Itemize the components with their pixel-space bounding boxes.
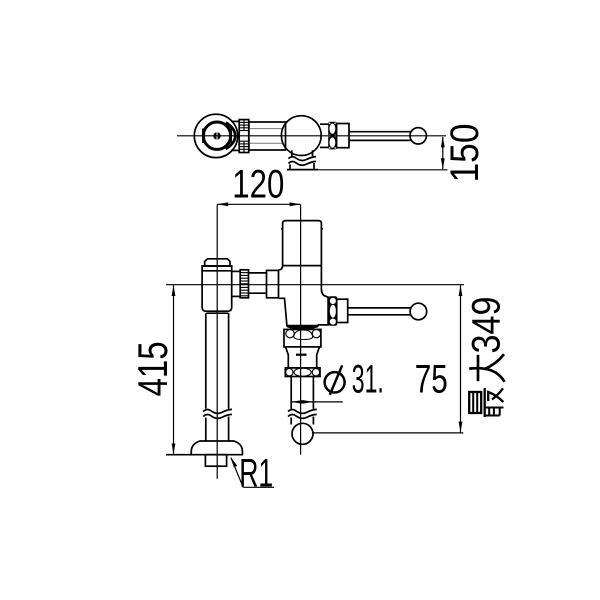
flush pipe centerline / right extension of dim 120 (front view): [300, 205, 302, 455]
connecting pipe to valve body: [249, 273, 267, 293]
svg-text:31.: 31.: [352, 358, 384, 402]
spud end circle: [292, 423, 313, 444]
dimension line 120: [217, 202, 300, 206]
floor flange bell: [166, 441, 243, 455]
dimension 150 (plan view, right): [318, 136, 448, 169]
knurled ring 1 (plan): [239, 120, 249, 153]
supply level centerline (horizontal, front view): [166, 284, 464, 286]
lever ball end (plan): [410, 128, 426, 144]
center screw dot: [213, 132, 220, 139]
outer circle of supply stop valve (plan): [194, 114, 237, 157]
dimension 最大349 (right): [314, 285, 464, 433]
svg-text:349: 349: [465, 297, 509, 354]
dark gasket band: [287, 326, 318, 330]
flush pipe upper section: [291, 377, 313, 409]
collar at valve body inlet: [267, 270, 279, 297]
lever end cap (plan): [337, 124, 349, 148]
lever arm lines (plan): [349, 132, 410, 141]
stop valve body: [202, 266, 232, 311]
stop valve outlet stub: [232, 271, 241, 296]
lever knurl with cross pattern (plan): [328, 122, 336, 150]
flush pipe break waves: [288, 409, 317, 418]
svg-text:150: 150: [443, 124, 487, 183]
inner circle with side flats (plan): [203, 122, 230, 149]
upper spud nut with balls: [284, 329, 321, 347]
supply pipe (front, left): [206, 313, 229, 409]
broken vacuum-breaker flange below ball (plan): [287, 150, 318, 169]
lever knurl (front): [329, 296, 338, 326]
text 31. 75: [352, 358, 448, 402]
text 415: [129, 341, 176, 396]
valve body (plan): [249, 122, 286, 150]
rect between ball and lever knurl (plan): [320, 124, 328, 147]
text 349 (rotated): [465, 297, 509, 354]
text 120: [232, 163, 284, 207]
R1 leader and text: [231, 457, 274, 487]
centerline (horizontal, plan view): [177, 135, 446, 137]
connecting rect circle-to-knurl (plan): [231, 121, 239, 150]
stop valve knurled nut: [240, 270, 248, 298]
phi 31.75 diameter dimension: [291, 400, 343, 404]
lever arm (front): [348, 308, 411, 315]
svg-text:75: 75: [415, 358, 448, 402]
lever ball end (front): [410, 303, 427, 320]
dimension 415 (left): [172, 285, 176, 455]
phi symbol: [325, 365, 345, 395]
bracket arc right of inner circle: [226, 123, 235, 149]
stop valve cap: [203, 259, 232, 266]
text 150: [443, 124, 487, 183]
lever socket (front): [337, 299, 348, 322]
ball / bonnet circle (plan): [281, 116, 321, 156]
supply pipe below break: [206, 417, 229, 442]
flush pipe lower section: [291, 417, 313, 425]
supply pipe centerline / left extension of dim 120 (front view): [216, 205, 218, 479]
tapered section with slot: [286, 347, 320, 368]
kanji 最 (rotated, hand path): [469, 388, 503, 417]
kanji 大 (rotated, hand path): [469, 354, 504, 382]
floor stub: [205, 455, 226, 467]
main valve body (front): [279, 221, 329, 326]
lower nut ring with balls: [285, 368, 320, 377]
svg-text:R1: R1: [239, 451, 273, 495]
supply pipe break waves: [203, 409, 232, 418]
svg-text:415: 415: [129, 341, 176, 396]
svg-text:120: 120: [232, 163, 284, 207]
text R1: [239, 451, 273, 495]
